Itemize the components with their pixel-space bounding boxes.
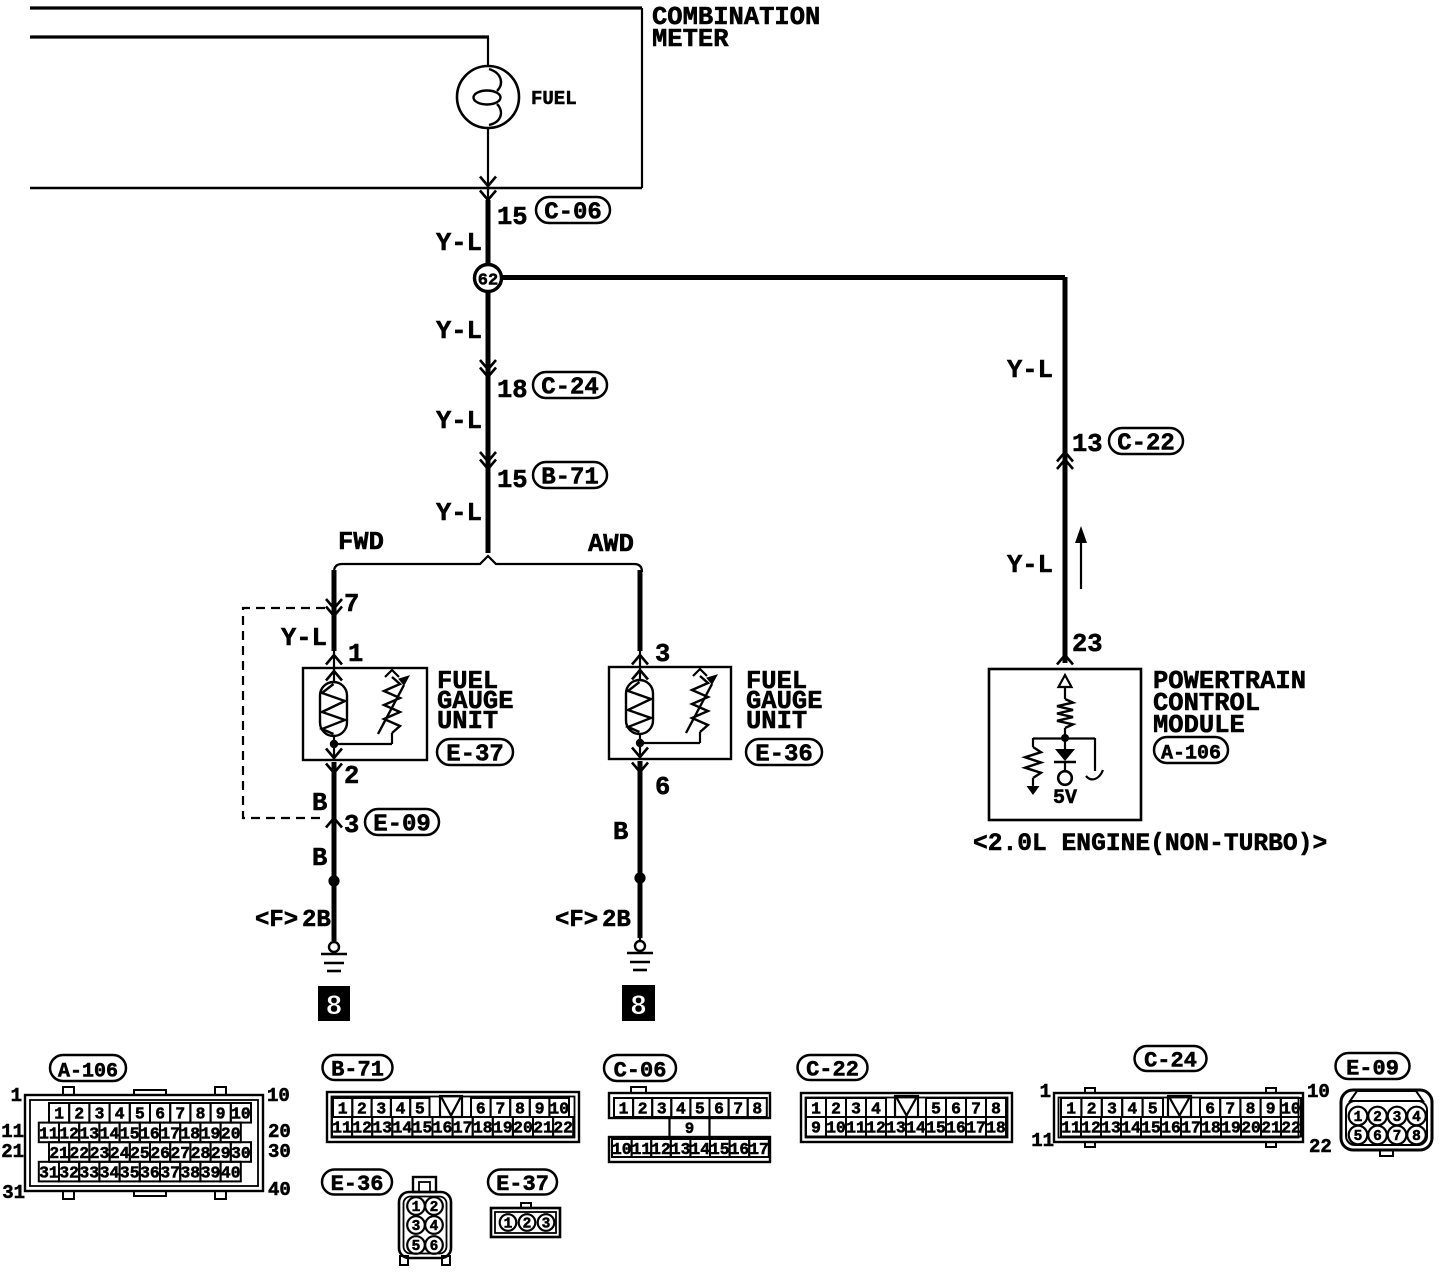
svg-text:40: 40 [221,1163,241,1182]
svg-text:12: 12 [59,1124,79,1143]
svg-text:32: 32 [59,1163,79,1182]
wire B segment FWD [332,762,337,941]
svg-text:E-36: E-36 [755,741,813,768]
svg-text:11: 11 [632,1140,652,1159]
svg-text:28: 28 [191,1144,211,1163]
connector E-37 pinout label [488,1170,557,1195]
svg-text:C-22: C-22 [1117,430,1175,457]
fuel gauge indicator [457,66,519,128]
B-71 pins top row [333,1096,569,1118]
svg-text:Y-L: Y-L [281,624,327,653]
wire right branch down [1063,277,1068,663]
svg-text:B-71: B-71 [331,1058,384,1083]
svg-text:33: 33 [80,1163,100,1182]
svg-text:5: 5 [931,1099,941,1118]
E-36 internal node [636,732,700,759]
svg-text:4: 4 [871,1099,881,1118]
svg-text:5: 5 [695,1099,705,1118]
svg-text:10: 10 [1281,1099,1301,1118]
svg-text:B: B [312,789,327,818]
svg-text:1: 1 [1040,1081,1051,1103]
svg-text:C-24: C-24 [541,374,599,401]
svg-text:15: 15 [120,1124,140,1143]
connector E-09 pinout label [1336,1053,1410,1079]
svg-text:1: 1 [54,1105,64,1124]
svg-text:26: 26 [150,1144,170,1163]
svg-text:7: 7 [175,1105,185,1124]
ground ref 8 FWD [319,987,349,1023]
svg-text:12: 12 [1081,1119,1101,1138]
svg-text:39: 39 [201,1163,221,1182]
fuel gauge unit E-36 box [609,667,731,759]
svg-text:16: 16 [433,1119,453,1138]
svg-text:7: 7 [496,1099,506,1118]
powertrain control module box A-106 [989,669,1141,820]
svg-text:31: 31 [39,1163,59,1182]
FUEL GAUGE UNIT text (E-36) [746,667,823,736]
connector A-106 pinout label [50,1055,126,1081]
svg-text:13: 13 [80,1124,100,1143]
svg-text:3: 3 [1107,1099,1117,1118]
svg-text:4: 4 [676,1099,686,1118]
E-36 sender resistor [626,680,653,734]
svg-text:6: 6 [430,1239,439,1255]
svg-text:3: 3 [344,811,359,840]
svg-text:10: 10 [231,1105,251,1124]
svg-text:11: 11 [1,1121,24,1143]
crossing arrow at E-09 [326,818,342,828]
svg-text:21: 21 [1261,1119,1281,1138]
junction 62 [475,265,502,292]
svg-text:16: 16 [140,1124,160,1143]
svg-text:24: 24 [110,1144,130,1163]
E-36 exit arrows [632,748,648,773]
svg-text:19: 19 [1221,1119,1241,1138]
svg-text:2: 2 [638,1099,648,1118]
svg-text:18: 18 [181,1124,201,1143]
ground FWD [321,928,347,971]
E-36 variable resistor [686,669,717,733]
svg-text:18: 18 [497,376,528,405]
PCM pull-up resistor [1057,699,1073,738]
svg-text:17: 17 [453,1119,473,1138]
connector C-24 pinout label [1135,1046,1207,1071]
combination meter box [30,8,642,188]
svg-text:1: 1 [504,1217,513,1233]
svg-text:1: 1 [619,1099,629,1118]
svg-text:6: 6 [1373,1129,1382,1145]
svg-text:1: 1 [1354,1110,1363,1126]
svg-text:7: 7 [733,1099,743,1118]
svg-text:14: 14 [393,1119,413,1138]
svg-text:18: 18 [473,1119,493,1138]
svg-text:13: 13 [671,1140,691,1159]
svg-text:5: 5 [1354,1129,1363,1145]
flow arrow up [1075,526,1087,589]
A-106 pins row 2 [39,1123,241,1144]
svg-text:4: 4 [396,1099,406,1118]
C-06 pin 9 cell [670,1118,710,1138]
svg-text:17: 17 [160,1124,180,1143]
svg-text:5: 5 [415,1099,425,1118]
crossing arrows at pin 7 [326,599,342,609]
A-106 pins row 3 [49,1142,251,1163]
connector C-06 pinout body [609,1087,770,1162]
svg-text:19: 19 [201,1124,221,1143]
svg-text:16: 16 [946,1119,966,1138]
combination meter label [652,3,820,54]
svg-text:27: 27 [171,1144,191,1163]
svg-text:3: 3 [851,1099,861,1118]
svg-text:18: 18 [986,1119,1006,1138]
svg-text:4: 4 [1412,1110,1421,1126]
svg-text:3: 3 [95,1105,105,1124]
svg-text:16: 16 [730,1140,750,1159]
svg-text:Y-L: Y-L [436,229,482,258]
arrow into E-37 [326,651,342,668]
svg-text:9: 9 [535,1099,545,1118]
svg-text:3: 3 [412,1219,421,1235]
svg-text:17: 17 [749,1140,769,1159]
svg-text:5: 5 [135,1105,145,1124]
svg-text:2: 2 [430,1200,439,1216]
svg-text:C-24: C-24 [1144,1049,1197,1074]
svg-text:11: 11 [332,1119,352,1138]
svg-text:Y-L: Y-L [436,407,482,436]
svg-text:7: 7 [1393,1129,1402,1145]
svg-text:35: 35 [120,1163,140,1182]
arrow into PCM [1057,655,1073,665]
svg-text:22: 22 [553,1119,573,1138]
connector E-09 pinout body [1341,1090,1432,1156]
svg-text:A-106: A-106 [58,1060,118,1083]
svg-text:14: 14 [1121,1119,1141,1138]
svg-text:FWD: FWD [338,528,384,557]
svg-text:25: 25 [130,1144,150,1163]
svg-text:3: 3 [542,1217,551,1233]
FUEL GAUGE UNIT text (E-37) [437,667,514,736]
svg-text:8: 8 [630,992,647,1023]
connector B-71 pinout body [327,1092,579,1142]
svg-text:<F>: <F> [555,907,598,934]
ground AWD [627,925,653,970]
svg-text:8: 8 [991,1099,1001,1118]
svg-text:5: 5 [412,1239,421,1255]
crossing arrows at C-24 [480,360,496,370]
svg-text:8: 8 [1246,1099,1256,1118]
svg-text:UNIT: UNIT [746,707,807,736]
C-22 pins top row [806,1096,1006,1118]
svg-text:20: 20 [221,1124,241,1143]
E-37 sender resistor [320,682,347,736]
svg-text:1: 1 [412,1200,421,1216]
A-106 corner pin numbers [1,1085,291,1204]
svg-text:2: 2 [357,1099,367,1118]
svg-text:6: 6 [476,1099,486,1118]
svg-text:23: 23 [1072,630,1103,659]
svg-text:8: 8 [515,1099,525,1118]
svg-text:C-06: C-06 [544,199,602,226]
connector E-36 pinout body [399,1177,451,1265]
wire junction to right branch [488,275,1065,280]
svg-text:6: 6 [951,1099,961,1118]
svg-text:8: 8 [326,992,343,1023]
svg-text:5: 5 [1148,1099,1158,1118]
svg-text:21: 21 [533,1119,553,1138]
PCM input triangle [1059,675,1072,699]
svg-text:14: 14 [100,1124,120,1143]
svg-text:31: 31 [2,1182,25,1204]
svg-text:11: 11 [39,1124,59,1143]
split brace [334,556,642,572]
svg-text:5V: 5V [1053,787,1077,810]
svg-text:4: 4 [430,1219,439,1235]
svg-text:E-37: E-37 [496,1172,549,1197]
svg-text:34: 34 [100,1163,120,1182]
C-24 corner pin numbers [1031,1081,1332,1158]
svg-text:MODULE: MODULE [1153,711,1245,740]
svg-text:23: 23 [90,1144,110,1163]
svg-text:2: 2 [831,1099,841,1118]
svg-text:1: 1 [1066,1099,1076,1118]
svg-text:UNIT: UNIT [437,707,498,736]
svg-text:4: 4 [1128,1099,1138,1118]
svg-text:B-71: B-71 [541,464,599,491]
E-37 entry arrow [326,668,342,682]
arrow into E-36 [632,651,648,667]
svg-text:36: 36 [140,1163,160,1182]
svg-text:E-09: E-09 [373,811,431,838]
svg-text:3: 3 [1393,1110,1402,1126]
connector E-36 label [746,739,822,765]
connector C-22 pinout body [801,1093,1012,1142]
svg-text:6: 6 [655,773,670,802]
svg-text:16: 16 [1161,1119,1181,1138]
svg-text:FUEL: FUEL [531,88,577,110]
C-06 pins top row [614,1098,767,1118]
svg-text:14: 14 [690,1140,710,1159]
wire junction 62 down to split [486,278,491,553]
svg-text:1: 1 [11,1085,22,1107]
wire FWD branch upper [332,570,337,651]
svg-text:2: 2 [74,1105,84,1124]
svg-text:13: 13 [1072,430,1103,459]
fuel gauge unit E-37 box [303,668,427,760]
svg-text:9: 9 [685,1120,694,1138]
svg-text:A-106: A-106 [1161,742,1221,765]
connector B-71 pinout label [323,1055,393,1080]
svg-text:4: 4 [115,1105,125,1124]
svg-text:Y-L: Y-L [436,317,482,346]
connector A-106 pinout body [25,1087,263,1199]
connector B-71 inline label [533,462,607,488]
E-37 internal node [330,733,392,760]
B-71 pins bottom row [332,1117,573,1138]
svg-text:17: 17 [1181,1119,1201,1138]
crossing arrows at B-71 [480,452,496,462]
svg-text:6: 6 [155,1105,165,1124]
svg-text:2B: 2B [602,907,631,934]
svg-text:37: 37 [160,1163,180,1182]
svg-text:2B: 2B [302,907,331,934]
svg-text:15: 15 [413,1119,433,1138]
C-22 pins bottom row [806,1117,1006,1138]
svg-text:30: 30 [268,1141,291,1163]
svg-text:14: 14 [906,1119,926,1138]
PCM internal node [1033,734,1095,742]
svg-text:13: 13 [372,1119,392,1138]
connector C-06 label [536,197,610,223]
svg-text:30: 30 [231,1144,251,1163]
svg-text:19: 19 [493,1119,513,1138]
svg-text:7: 7 [971,1099,981,1118]
svg-text:15: 15 [1141,1119,1161,1138]
svg-text:11: 11 [1031,1130,1054,1152]
connector E-36 pinout label [322,1170,392,1195]
svg-text:B: B [613,818,628,847]
svg-text:8: 8 [752,1099,762,1118]
wire B segment AWD [638,761,643,938]
E-36 pin circles [407,1197,443,1255]
splice dot FWD [328,875,339,886]
svg-text:Y-L: Y-L [1007,356,1053,385]
splice dot AWD [634,872,645,883]
svg-text:21: 21 [49,1144,69,1163]
svg-text:1: 1 [338,1099,348,1118]
connector C-22 pinout label [798,1055,868,1080]
svg-text:C-22: C-22 [806,1058,859,1083]
svg-text:9: 9 [811,1119,821,1138]
svg-text:12: 12 [352,1119,372,1138]
svg-text:7: 7 [344,590,359,619]
svg-text:2: 2 [344,762,359,791]
svg-text:AWD: AWD [588,530,634,559]
dashed link to E-09 [243,608,325,818]
svg-text:13: 13 [1101,1119,1121,1138]
svg-text:22: 22 [1281,1119,1301,1138]
svg-text:40: 40 [268,1179,291,1201]
svg-text:METER: METER [652,25,729,54]
svg-text:20: 20 [1241,1119,1261,1138]
svg-text:29: 29 [211,1144,231,1163]
svg-text:15: 15 [926,1119,946,1138]
svg-text:12: 12 [866,1119,886,1138]
svg-text:17: 17 [966,1119,986,1138]
svg-text:3: 3 [655,640,670,669]
svg-text:7: 7 [1225,1099,1235,1118]
wire pin15 to junction 62 [486,200,491,278]
svg-text:<F>: <F> [255,907,298,934]
svg-text:3: 3 [657,1099,667,1118]
svg-text:<2.0L ENGINE(NON-TURBO)>: <2.0L ENGINE(NON-TURBO)> [973,831,1327,858]
connector A-106 label (PCM) [1154,737,1228,763]
wire AWD branch upper [638,570,643,651]
svg-text:B: B [312,844,327,873]
svg-text:2: 2 [1087,1099,1097,1118]
svg-text:20: 20 [513,1119,533,1138]
svg-text:9: 9 [1266,1099,1276,1118]
svg-text:1: 1 [348,640,363,669]
svg-text:38: 38 [181,1163,201,1182]
svg-text:22: 22 [1309,1136,1332,1158]
svg-text:15: 15 [497,466,528,495]
svg-text:62: 62 [478,272,498,291]
connector C-06 pinout label [604,1055,676,1081]
connector C-24 inline label [533,372,607,398]
svg-text:13: 13 [886,1119,906,1138]
A-106 pins row 1 [49,1103,251,1124]
POWERTRAIN CONTROL MODULE text [1153,667,1306,740]
connector C-22 inline label [1109,428,1183,454]
svg-text:10: 10 [826,1119,846,1138]
E-37 variable resistor [378,670,409,734]
ground ref 8 AWD [623,986,654,1023]
svg-text:2: 2 [1373,1110,1382,1126]
svg-text:10: 10 [549,1099,569,1118]
PCM right branch ground hook [1086,738,1103,779]
svg-text:10: 10 [1307,1081,1330,1103]
svg-text:12: 12 [651,1140,671,1159]
E-37 pin circles [500,1214,555,1232]
connector E-37 label [437,739,513,765]
svg-text:E-36: E-36 [331,1172,384,1197]
C-24 pins bottom row [1061,1117,1301,1138]
svg-text:8: 8 [196,1105,206,1124]
E-09 pin circles [1349,1107,1426,1145]
svg-text:18: 18 [1201,1119,1221,1138]
svg-text:2: 2 [523,1217,532,1233]
svg-text:10: 10 [267,1085,290,1107]
svg-text:Y-L: Y-L [436,499,482,528]
svg-text:11: 11 [846,1119,866,1138]
svg-text:15: 15 [497,203,528,232]
A-106 pins row 4 [39,1162,241,1183]
svg-text:8: 8 [1412,1129,1421,1145]
PCM diode and 5V source [1054,738,1076,785]
svg-text:Y-L: Y-L [1007,551,1053,580]
crossing arrows at C-22 [1057,452,1073,462]
svg-text:C-06: C-06 [614,1058,667,1083]
svg-text:21: 21 [1,1141,24,1163]
svg-text:22: 22 [70,1144,90,1163]
svg-text:E-09: E-09 [1346,1056,1399,1081]
wire fuel gauge to pin 15 [480,128,496,200]
E-37 exit arrows [326,749,342,774]
wire into fuel gauge [30,37,489,66]
svg-text:20: 20 [268,1121,291,1143]
svg-text:6: 6 [714,1099,724,1118]
svg-text:3: 3 [376,1099,386,1118]
svg-text:6: 6 [1205,1099,1215,1118]
PCM left resistor to ground [1025,738,1041,795]
svg-text:15: 15 [710,1140,730,1159]
C-06 pins bottom row [612,1139,769,1159]
svg-text:1: 1 [811,1099,821,1118]
connector C-24 pinout body [1054,1088,1303,1147]
svg-text:10: 10 [612,1140,632,1159]
svg-text:9: 9 [216,1105,226,1124]
E-36 entry arrow [632,667,648,680]
C-24 pins top row [1061,1096,1301,1118]
svg-text:11: 11 [1061,1119,1081,1138]
connector E-37 pinout body [491,1203,560,1237]
svg-text:E-37: E-37 [446,741,504,768]
connector E-09 inline label [365,809,439,835]
